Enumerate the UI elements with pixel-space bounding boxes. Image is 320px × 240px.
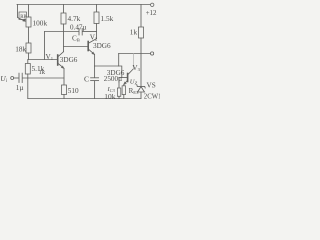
svg-text:1.5k: 1.5k [101, 14, 114, 23]
resistor 1.5k body [94, 12, 99, 24]
output terminal circle [151, 52, 154, 55]
svg-text:510: 510 [68, 87, 79, 95]
svg-text:18k: 18k [15, 45, 26, 54]
transistor V3 emitter arrowhead [124, 82, 127, 85]
wire top supply rail [17, 4, 150, 6]
wire V3 emitter to RE3 [123, 84, 125, 86]
wire rail to R 4.7k [63, 5, 65, 14]
wire 1k bottom down through output node to zener VS [140, 38, 142, 86]
transistor V2 collector [89, 39, 97, 44]
svg-text:Ui: Ui [0, 74, 7, 84]
supply terminal circle [151, 3, 154, 6]
svg-text:2CW15: 2CW15 [144, 93, 160, 100]
wire rail to R 1.5k [96, 5, 98, 13]
wire base node horizontal to V1 base [29, 59, 58, 61]
wire input node down to ground rail [27, 78, 29, 99]
resistor 510 body [62, 85, 67, 95]
wire emitter node down to C 2500u [94, 66, 96, 78]
wire V3 base horizontal [119, 77, 127, 79]
wire RE3 bottom to ground rail [123, 95, 125, 99]
svg-text:RE3: RE3 [129, 87, 139, 95]
svg-text:0.47µ: 0.47µ [70, 24, 87, 32]
potentiometer RP body 100k [26, 17, 31, 27]
svg-text:+12: +12 [146, 9, 157, 17]
potentiometer RP wiper wire [18, 5, 25, 21]
svg-text:3DG6: 3DG6 [60, 56, 78, 64]
zener VS triangle [138, 87, 145, 92]
potentiometer RP label box [19, 12, 27, 20]
wire V1 emitter down to R 510 [63, 68, 65, 85]
wire 5.1k bottom to input node [27, 74, 29, 78]
transistor V1 collector [58, 52, 64, 57]
transistor V3 emitter [124, 81, 127, 85]
resistor RE3 body [122, 86, 125, 95]
capacitor C top plate [91, 77, 99, 79]
transistor V1 emitter [58, 63, 64, 68]
wire node X horizontal (4.7k bottom, to CB cap) [45, 31, 79, 33]
wire base node down to R 5.1k [27, 60, 29, 64]
wire emitter node jog to V3 base column [119, 66, 122, 78]
svg-text:1k: 1k [130, 28, 138, 37]
wire zener VS anode to ground rail [140, 92, 142, 99]
wire 1.5k bottom down V2 collector column [96, 24, 98, 39]
wire CB to V2 collector column [82, 31, 96, 33]
svg-text:4.7k: 4.7k [68, 14, 81, 23]
capacitor CB right plate [81, 29, 83, 36]
svg-text:3DG6: 3DG6 [93, 42, 111, 50]
svg-text:10k: 10k [104, 92, 115, 101]
wire 510 bottom to ground rail [63, 95, 65, 99]
wire emitter node horizontal [95, 65, 119, 67]
wire 10k top lead [118, 78, 120, 89]
potentiometer RP wiper arrowhead [23, 19, 26, 22]
svg-text:100k: 100k [33, 19, 48, 28]
svg-text:RP: RP [20, 15, 26, 20]
svg-text:CB: CB [72, 34, 80, 42]
capacitor C bottom plate [91, 80, 99, 82]
wire input terminal to C1 [14, 77, 19, 79]
wire V3 collector up to output node (faint) [132, 54, 134, 69]
transistor V3 collector [128, 69, 133, 75]
resistor 5.1k body [25, 64, 30, 75]
zener VS cathode bar with wings [137, 85, 145, 88]
capacitor C1 left plate [18, 73, 20, 82]
svg-text:VS: VS [147, 82, 156, 90]
wire emitter node up to output wire [118, 54, 120, 67]
svg-text:C: C [84, 74, 89, 83]
svg-text:V3: V3 [132, 64, 140, 72]
resistor 18k body [26, 43, 31, 53]
input terminal Ui circle [11, 77, 14, 80]
wire ground rail [28, 98, 141, 100]
wire C1 to V1 emitter column [22, 77, 64, 79]
svg-text:IC3: IC3 [107, 86, 116, 93]
resistor 10k body [117, 88, 120, 96]
wire 10k bottom to ground rail [118, 96, 120, 98]
wire V2 base horizontal [64, 46, 88, 48]
wire 18k bottom to base node [28, 53, 30, 60]
capacitor CB left plate [78, 29, 80, 36]
svg-text:1k: 1k [39, 69, 46, 76]
resistor 1k body [139, 27, 144, 38]
wire RP bottom to R 18k [28, 27, 30, 43]
capacitor C1 right plate [21, 73, 23, 82]
transistor V2 bar [87, 42, 89, 51]
wire output horizontal to terminal [119, 53, 151, 55]
wire 4.7k bottom through node X down to V2 base tee [63, 24, 65, 52]
wire V2 emitter down [94, 55, 96, 66]
svg-text:2500µ: 2500µ [104, 75, 122, 83]
transistor V2 emitter [89, 49, 95, 54]
transistor V1 bar [57, 55, 59, 65]
wire node X down to base wire [44, 32, 46, 60]
svg-text:UZ: UZ [130, 78, 138, 85]
transistor V3 bar [127, 74, 129, 82]
wire rail to RP top [28, 5, 30, 18]
svg-text:1µ: 1µ [16, 84, 24, 92]
transistor V2 emitter arrowhead [92, 52, 95, 55]
resistor 4.7k body [61, 13, 66, 24]
svg-text:V1: V1 [46, 53, 54, 61]
wire rail to R 1k [140, 5, 142, 28]
wire C bottom to ground rail [94, 81, 96, 99]
transistor V1 emitter arrowhead [61, 66, 64, 69]
